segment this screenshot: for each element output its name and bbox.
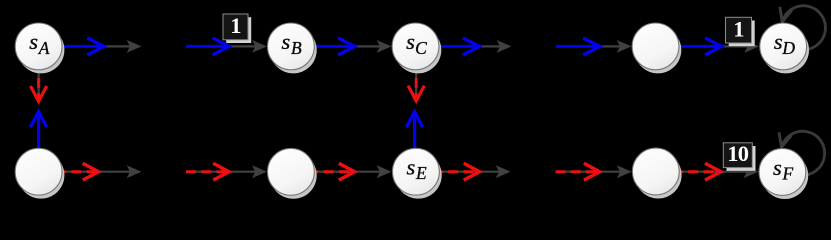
state s_A xyxy=(15,23,64,73)
svg-text:F: F xyxy=(782,164,794,184)
edge into s_B (gray arrow + blue action arrow) xyxy=(186,38,267,55)
svg-text:1: 1 xyxy=(230,13,241,38)
svg-text:D: D xyxy=(781,38,795,58)
state s_C xyxy=(392,23,441,73)
edge from s_E right (gray arrow + red dashed action arrow) xyxy=(433,163,511,180)
edge into state before s_D (gray arrow + blue action arrow) xyxy=(556,38,632,55)
edge s_C down to s_E (red dashed action arrow down) xyxy=(408,63,424,101)
svg-text:B: B xyxy=(291,38,302,58)
svg-text:10: 10 xyxy=(727,141,749,166)
self-loop on s_D xyxy=(780,6,826,50)
edge from s_C right (gray arrow + blue action arrow) xyxy=(439,38,512,55)
state s_F xyxy=(759,149,808,199)
edge into s_E (gray arrow + red dashed action arrow) xyxy=(308,163,391,180)
state s_D xyxy=(760,23,809,73)
edge from s_A right (gray arrow + blue action arrow) xyxy=(62,38,142,55)
svg-text:s: s xyxy=(29,29,38,54)
edge into s_F (gray arrow + red dashed action arrow) xyxy=(673,163,759,180)
svg-text:s: s xyxy=(407,155,416,180)
reward label "1" on edge into s_B xyxy=(223,13,251,43)
state unlabeled (below s_A) xyxy=(15,148,64,198)
state s_B xyxy=(268,23,317,73)
edge from lower-left state right (gray arrow + red dashed action arrow) xyxy=(56,163,142,180)
state unlabeled (below s_B) xyxy=(268,148,317,198)
edge into s_D (gray arrow + blue action arrow) xyxy=(679,38,759,55)
svg-text:s: s xyxy=(406,29,415,54)
state unlabeled (bottom, before s_F) xyxy=(632,148,681,198)
svg-text:s: s xyxy=(773,155,782,180)
reward label "1" on edge into s_D xyxy=(726,16,755,46)
reward label "10" on edge into s_F xyxy=(723,141,755,171)
svg-text:E: E xyxy=(415,163,427,183)
edge s_E up to s_C (blue action arrow up) xyxy=(406,111,422,149)
svg-text:s: s xyxy=(282,29,291,54)
state unlabeled (top, before s_D) xyxy=(632,23,681,73)
edge s_B to s_C (gray arrow + blue action arrow) xyxy=(314,38,391,55)
svg-text:C: C xyxy=(415,38,427,58)
edge into state below s_B (gray arrow + red dashed action arrow) xyxy=(186,163,267,180)
svg-text:1: 1 xyxy=(733,16,744,41)
edge into state before s_F (gray arrow + red dashed action arrow) xyxy=(556,163,632,180)
edge s_A down (red dashed action arrow down) xyxy=(31,63,47,101)
self-loop on s_F xyxy=(779,131,825,175)
svg-text:A: A xyxy=(38,38,50,58)
state s_E xyxy=(393,148,442,198)
edge up to s_A (blue action arrow up) xyxy=(30,111,46,150)
